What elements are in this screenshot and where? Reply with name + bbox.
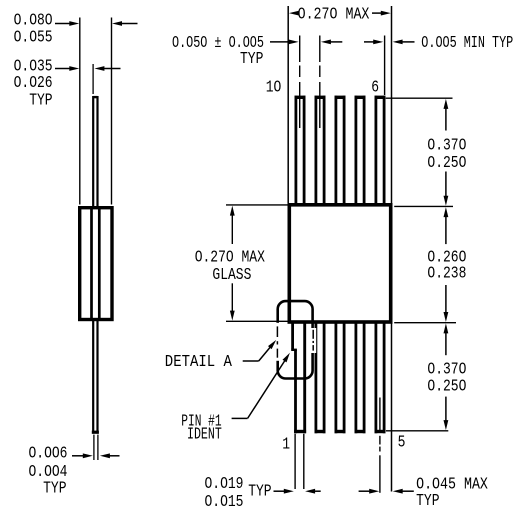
svg-text:O.25O: O.25O (427, 155, 466, 173)
pin 5 centerline (379, 398, 381, 493)
dimension 0.270 MAX GLASS (230, 206, 235, 321)
label 5 (398, 434, 406, 452)
extension line left (body thickness left) (79, 18, 81, 205)
lead pin 5 (375, 323, 386, 434)
svg-text:O.O35: O.O35 (14, 58, 53, 76)
label 0.250 (427, 155, 466, 173)
svg-text:O.O5O ± O.OO5: O.O5O ± O.OO5 (172, 34, 264, 52)
label 0.026 (14, 75, 53, 93)
svg-text:O.O26: O.O26 (14, 75, 53, 93)
label 0.006 (29, 445, 68, 463)
extension line glass left edge (287, 6, 289, 203)
lead pin 2 (315, 323, 326, 434)
lead pin 6 (375, 96, 386, 204)
pin 6 right edge extension line (384, 36, 386, 96)
right extension line at body top (394, 205, 453, 207)
svg-text:O.37O: O.37O (427, 361, 466, 379)
body bottom extension line left (226, 320, 288, 322)
extension line glass right edge (391, 6, 393, 492)
right extension line at lead top (386, 97, 453, 99)
label 0.238 (427, 265, 466, 283)
label 0.015 (205, 494, 244, 512)
label 0.370 (427, 361, 466, 379)
lead pin 3 (335, 323, 346, 434)
label 0.270 MAX (195, 249, 265, 267)
svg-text:O.OO6: O.OO6 (29, 445, 68, 463)
body (side view) (80, 208, 112, 320)
label 6 (371, 79, 379, 97)
label TYP (29, 92, 52, 110)
body (top view) (289, 205, 390, 322)
pin 10 centerline (299, 36, 301, 129)
dimension 0.270 MAX top (289, 11, 391, 16)
svg-text:O.O15: O.O15 (205, 494, 244, 512)
svg-text:1O: 1O (266, 79, 282, 97)
label TYP (240, 51, 263, 69)
label 1 (282, 436, 290, 454)
label 0.004 (29, 464, 68, 482)
lead through body right line (98, 206, 101, 321)
dimension 0.050 pitch arrows (270, 40, 342, 45)
lead pin 7 (355, 96, 366, 204)
svg-text:O.O19: O.O19 (205, 476, 244, 494)
pin 9 centerline (319, 36, 321, 129)
label 0.035 (14, 58, 53, 76)
svg-text:5: 5 (398, 434, 406, 452)
svg-text:TYP: TYP (416, 493, 439, 511)
label 0.260 (427, 249, 466, 267)
svg-text:O.37O: O.37O (427, 137, 466, 155)
svg-text:O.27O MAX: O.27O MAX (298, 4, 370, 24)
svg-text:O.238: O.238 (427, 265, 466, 283)
dimension 0.019/0.015 arrows (274, 489, 321, 494)
label TYP (248, 483, 271, 501)
label TYP (416, 493, 439, 511)
dimension 0.370/0.250 lower (444, 323, 449, 430)
body top extension line left (226, 204, 288, 206)
upper lead (side view) (93, 96, 97, 207)
dimension 0.080/0.055 arrows (55, 21, 138, 26)
svg-text:O.25O: O.25O (427, 378, 466, 396)
pin1 width extension lines (295, 434, 304, 489)
bottom pins 1..5 (291, 323, 385, 434)
svg-text:DETAIL A: DETAIL A (165, 352, 233, 371)
svg-text:O.O8O: O.O8O (14, 12, 53, 30)
label 0.045 MAX (416, 474, 488, 494)
label TYP (43, 480, 66, 498)
svg-text:TYP: TYP (43, 480, 66, 498)
label 0.270 MAX top (298, 4, 370, 24)
dimension 0.006/0.004 arrows (72, 453, 120, 458)
label 0.005 MIN TYP (421, 35, 513, 53)
label 0.019 (205, 476, 244, 494)
dimension 0.005 MIN arrows (364, 40, 415, 45)
label 0.080 (14, 12, 53, 30)
dimension 0.370/0.250 upper (444, 99, 449, 206)
dimension 0.260/0.238 (444, 207, 449, 322)
svg-text:O.O45 MAX: O.O45 MAX (416, 474, 488, 494)
dimension 0.045 arrows (359, 489, 414, 494)
extension line right (body thickness right) (111, 18, 113, 205)
label 0.250 (427, 378, 466, 396)
label PIN #1 IDENT with leader (181, 353, 290, 445)
right extension line at lead bottom (386, 430, 448, 432)
lower lead (side view) (92, 321, 99, 434)
lead pin 4 (355, 323, 366, 434)
detail A balloon (274, 301, 317, 378)
lead pin 1 with ident notch (291, 323, 306, 434)
lead through body left line (90, 206, 93, 321)
svg-text:TYP: TYP (248, 483, 271, 501)
svg-text:O.OO5 MIN TYP: O.OO5 MIN TYP (421, 35, 513, 53)
label DETAIL A with leader (165, 340, 276, 371)
label GLASS (212, 267, 251, 285)
svg-text:TYP: TYP (240, 51, 263, 69)
svg-text:O.O55: O.O55 (14, 29, 53, 47)
svg-text:O.27O MAX: O.27O MAX (195, 249, 265, 267)
dimension 0.035/0.026 arrows (55, 64, 121, 94)
svg-text:6: 6 (371, 79, 379, 97)
svg-text:O.OO4: O.OO4 (29, 464, 68, 482)
lead thickness extension lines (94, 435, 98, 460)
label 0.055 (14, 29, 53, 47)
label 0.050 +/- 0.005 (172, 34, 264, 52)
right extension line at body bottom (394, 322, 456, 324)
svg-text:1: 1 (282, 436, 290, 454)
lead pin 9 (315, 96, 326, 204)
lead pin 8 (335, 96, 346, 204)
label 10 (266, 79, 282, 97)
label 0.370 (427, 137, 466, 155)
svg-text:GLASS: GLASS (212, 267, 251, 285)
svg-text:TYP: TYP (29, 92, 52, 110)
svg-text:IDENT: IDENT (187, 426, 222, 445)
lead pin 10 (295, 96, 306, 204)
